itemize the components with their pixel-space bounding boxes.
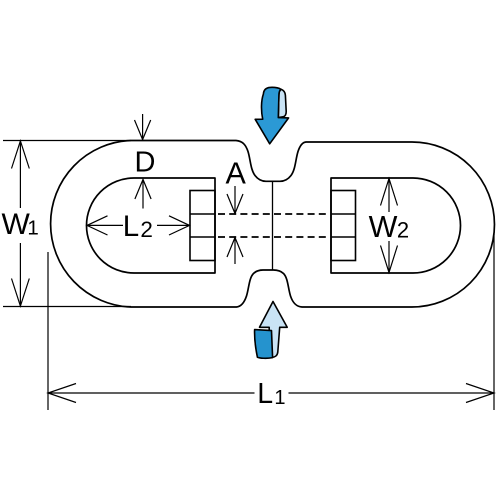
dimension A lower arrow xyxy=(227,238,243,265)
top rotation arrow (blue ribbon, pale back face) xyxy=(278,89,286,117)
svg-text:D: D xyxy=(135,147,156,179)
left pin block xyxy=(190,191,215,261)
svg-text:L1: L1 xyxy=(257,378,285,410)
svg-text:A: A xyxy=(226,157,247,191)
dimension L1 line and arrowheads xyxy=(48,384,494,403)
left eye inner outline xyxy=(87,178,216,273)
top rotation arrow (blue ribbon, front and head) xyxy=(255,87,288,143)
swivel body outer outline xyxy=(51,141,495,308)
swivel pivot center line xyxy=(272,182,274,271)
bottom rotation arrow (dark blue wrap) xyxy=(255,330,273,359)
bottom rotation arrow (pale up arrow) xyxy=(260,302,288,358)
right pin block xyxy=(331,191,356,261)
dimension L1 extension lines xyxy=(48,234,494,410)
dimension D upper arrow xyxy=(135,114,151,140)
right eye inner outline xyxy=(331,178,461,273)
dimension D lower arrow xyxy=(135,180,151,209)
dimension L2 line and arrowheads xyxy=(87,216,190,235)
dimension W1 extension lines xyxy=(3,141,131,307)
dimension W1 line and arrowheads xyxy=(12,141,30,307)
dashed pin center lines xyxy=(218,214,329,237)
dimension A upper arrow xyxy=(227,186,243,214)
svg-text:W1: W1 xyxy=(2,208,39,241)
dimension W2 line and arrowheads xyxy=(381,178,398,273)
